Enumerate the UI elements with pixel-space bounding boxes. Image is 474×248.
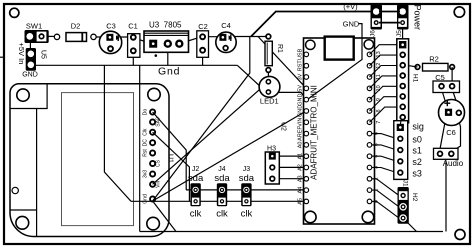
svg-text:sig: sig — [412, 121, 424, 131]
diode D2 — [54, 22, 96, 42]
wire J5 to H1 square pad — [402, 26, 404, 41]
svg-text:Power: Power — [413, 5, 423, 31]
wire U3 gnd down to bus — [167, 47, 169, 65]
capacitor C4 — [216, 21, 236, 53]
svg-text:C3: C3 — [106, 22, 116, 31]
U2 gnd trace over module — [305, 38, 363, 102]
trace U1 gnd pin to bottom trace — [153, 201, 176, 232]
wire gnd bus diagonal to LED1 — [237, 65, 259, 86]
gnd label wire to U2 — [305, 24, 363, 102]
wire LED1 bottom to U2 GND pin — [268, 92, 306, 99]
sda bus — [186, 189, 306, 191]
display glass rect — [62, 93, 134, 226]
wire SW1 to D2 — [44, 35, 55, 37]
wire D2 to C3 to C1 — [95, 36, 131, 38]
module small hole left — [12, 187, 18, 193]
resistor R2 — [415, 55, 454, 72]
svg-text:7: 7 — [376, 121, 382, 124]
svg-text:RST: RST — [297, 60, 303, 72]
wire C5 to C6 plus — [442, 89, 448, 107]
svg-text:GND: GND — [297, 94, 303, 106]
svg-text:J6: J6 — [370, 30, 377, 37]
svg-text:A3: A3 — [297, 175, 303, 182]
display U1 pins — [143, 109, 174, 204]
svg-text:D2: D2 — [71, 22, 81, 31]
svg-text:C6: C6 — [446, 128, 456, 137]
svg-text:GND: GND — [297, 105, 303, 117]
U2 hole bottom-right — [362, 211, 374, 223]
regulator U3 7805 — [144, 21, 189, 57]
svg-text:GND: GND — [22, 72, 38, 79]
led LED1 — [259, 76, 280, 105]
trace U1 vin pin to LED1 top — [153, 82, 269, 185]
trace U1 pin1 to sda bus — [153, 112, 187, 190]
trace U1 gnd pin to U2 gnd — [153, 111, 307, 201]
wire C1 to U3 pin1 — [135, 38, 151, 43]
svg-text:sda: sda — [214, 173, 230, 184]
display module U1 outline — [10, 84, 169, 237]
svg-text:R2: R2 — [429, 55, 439, 64]
trace U1 clk pin to clk bus — [153, 132, 190, 201]
svg-text:Rst: Rst — [143, 149, 149, 157]
U2 usb connector — [325, 37, 354, 60]
svg-text:clk: clk — [216, 208, 228, 219]
svg-text:A0: A0 — [297, 142, 303, 149]
svg-text:Gnd: Gnd — [143, 194, 149, 204]
svg-text:s3: s3 — [412, 168, 422, 178]
wire U3 pin3 to C2 — [180, 37, 200, 43]
H3 wire to A3 — [280, 178, 307, 180]
svg-text:s0: s0 — [412, 134, 422, 144]
svg-text:USB: USB — [297, 48, 303, 60]
svg-text:U3 7805: U3 7805 — [149, 21, 182, 30]
wire +V diagonal and bus — [251, 12, 371, 37]
svg-text:C4: C4 — [221, 21, 231, 30]
wire C4 to junction to R1 top — [228, 36, 266, 38]
header J1 sig — [394, 121, 409, 187]
wires U2 pins 13-7 to H1 — [370, 45, 400, 123]
svg-text:A5: A5 — [297, 198, 303, 205]
header H2 — [398, 187, 419, 224]
module hole top-left — [17, 89, 29, 101]
wire C2 down to bus — [202, 51, 204, 65]
wire C6 to Audio left — [440, 117, 446, 149]
svg-text:+5V In: +5V In — [17, 43, 26, 65]
svg-text:CS: CS — [156, 159, 162, 167]
header H3 — [265, 146, 279, 185]
wire +5V to U2 5V pin — [258, 37, 306, 89]
svg-text:3V: 3V — [297, 73, 303, 80]
wire C1 down to bus — [132, 52, 134, 65]
module hole bottom-right — [147, 217, 160, 230]
resistor R1 — [265, 34, 283, 79]
capacitor C5 — [433, 73, 460, 93]
svg-text:A4: A4 — [297, 187, 303, 194]
capacitor C6 — [439, 100, 465, 138]
svg-text:R1: R1 — [276, 44, 283, 53]
mounting hole bottom-right — [455, 230, 465, 240]
wire C6 to Audio right — [453, 117, 461, 151]
svg-text:s2: s2 — [412, 157, 422, 167]
svg-text:s1: s1 — [412, 146, 422, 156]
header J3 sda/clk — [239, 166, 255, 219]
U2 left pins — [297, 48, 308, 204]
header U5 +5V In — [17, 43, 47, 79]
svg-text:LED1: LED1 — [260, 97, 279, 106]
svg-text:U2: U2 — [280, 122, 287, 131]
svg-text:DC: DC — [143, 139, 149, 147]
svg-text:A2: A2 — [297, 164, 303, 171]
svg-text:sda: sda — [239, 173, 255, 184]
wire H2 to bottom trace — [408, 223, 417, 232]
board notch stub left edge — [0, 56, 5, 58]
wire U5 to SW1 — [29, 42, 31, 54]
header J4 sda/clk — [214, 166, 230, 219]
power bus wires between J6 and J5 — [379, 12, 400, 23]
svg-text:5V: 5V — [297, 85, 303, 92]
svg-text:H2: H2 — [411, 193, 418, 202]
svg-text:U1: U1 — [167, 154, 174, 163]
svg-text:Vin: Vin — [156, 181, 162, 188]
mounting hole top-right — [454, 7, 464, 17]
svg-text:Gnd: Gnd — [158, 66, 180, 78]
svg-text:C1: C1 — [128, 22, 138, 31]
microcontroller U2 Adafruit Metro Mini outline — [304, 38, 375, 224]
header J6 — [370, 5, 383, 37]
module hole bottom-left — [16, 216, 29, 229]
U2 hole top-right — [364, 40, 373, 49]
svg-text:C2: C2 — [198, 22, 208, 31]
mounting hole top-left — [10, 8, 19, 17]
svg-text:(+V): (+V) — [343, 2, 358, 11]
svg-text:GND: GND — [343, 20, 360, 29]
wire Audio to bottom trace — [445, 161, 447, 232]
wire H1 to R2 — [409, 66, 418, 67]
connector Audio — [434, 148, 464, 168]
capacitor C2 — [197, 22, 209, 57]
U2 hole bottom-left — [305, 211, 317, 223]
svg-text:H1: H1 — [412, 74, 419, 83]
svg-text:Clk: Clk — [143, 128, 149, 136]
svg-text:SA0: SA0 — [156, 117, 162, 127]
wire C2 to C4 — [204, 36, 221, 38]
header J5 — [396, 5, 409, 37]
trace through module to clk bus — [104, 65, 131, 201]
wires U2 pins 2,1,0 to H2 — [372, 179, 399, 218]
wire R2 to C5 — [451, 67, 453, 86]
svg-text:U5: U5 — [40, 50, 47, 59]
svg-text:AREF: AREF — [297, 126, 303, 141]
svg-text:SW1: SW1 — [26, 22, 42, 31]
capacitor C1 — [128, 22, 140, 58]
wire C5 to C6 minus — [452, 89, 458, 108]
svg-text:clk: clk — [190, 208, 202, 219]
svg-text:A1: A1 — [297, 153, 303, 160]
wires U2 pins to J1 sig header — [372, 134, 397, 173]
gnd bus horizontal — [33, 64, 237, 66]
svg-text:Audio: Audio — [443, 159, 464, 168]
U2 right pins — [367, 51, 382, 203]
header J2 sda/clk — [188, 166, 204, 219]
header H1 — [397, 39, 419, 123]
trace long vertical x140 — [139, 65, 141, 231]
H3 wire to A2 — [280, 166, 307, 168]
svg-text:sda: sda — [188, 173, 204, 184]
sig pin labels — [412, 121, 424, 178]
svg-text:VIN: VIN — [297, 118, 303, 127]
svg-text:ADAFRUIT_METRO_MINI: ADAFRUIT_METRO_MINI — [310, 85, 319, 180]
module corner tab lines — [10, 84, 47, 109]
bottom gnd trace — [140, 231, 443, 233]
capacitor C3 — [99, 22, 121, 54]
svg-text:J1: J1 — [402, 180, 409, 187]
U2 hole top-left — [306, 40, 315, 49]
svg-text:Do: Do — [143, 109, 149, 116]
switch header SW1 — [25, 22, 49, 44]
clk bus — [131, 200, 306, 202]
svg-text:clk: clk — [241, 208, 253, 219]
module hole top-right — [148, 88, 160, 100]
mounting hole mid-left — [26, 132, 35, 141]
H3 wire to A1 — [280, 155, 307, 157]
svg-text:3v3: 3v3 — [143, 170, 149, 178]
svg-text:J5: J5 — [396, 30, 403, 37]
wire junction down diag to U1 Gnd — [153, 37, 250, 202]
